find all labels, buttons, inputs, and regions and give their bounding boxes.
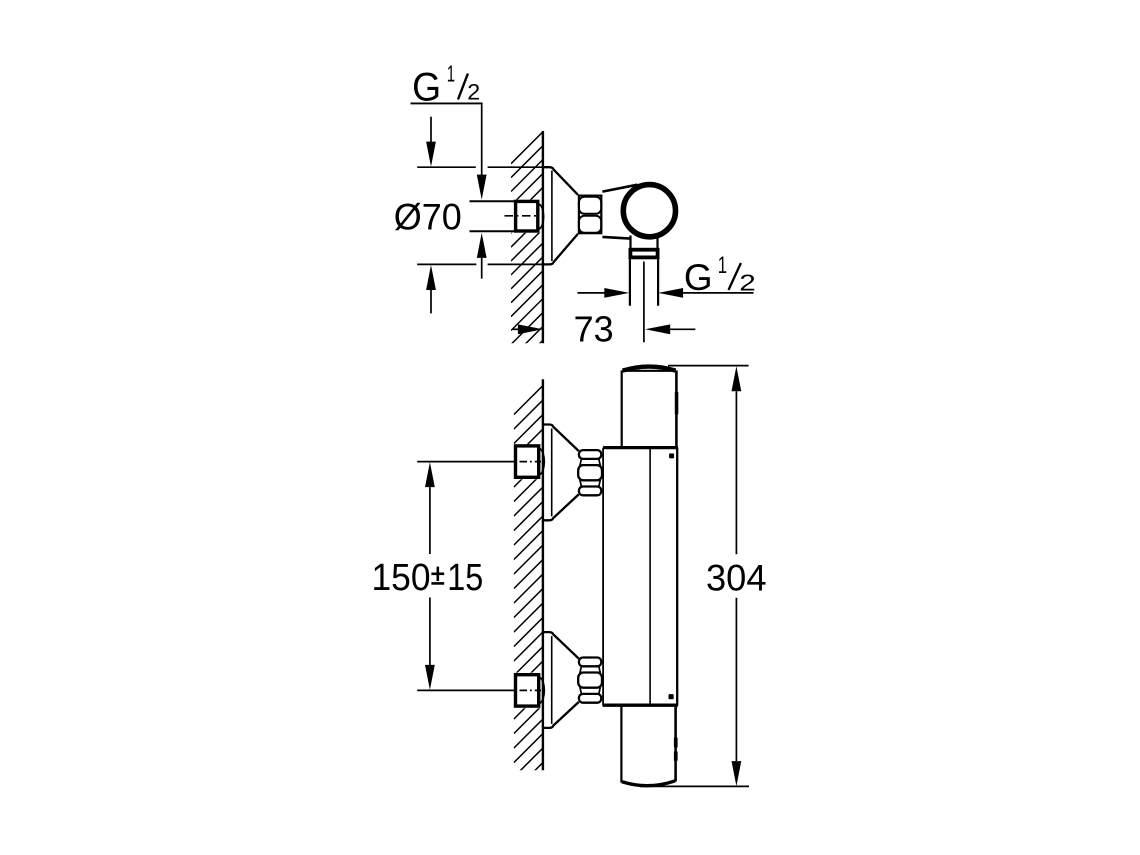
rounded end of nipple <box>539 204 544 229</box>
clip mark upper cylinder <box>675 392 679 414</box>
svg-text:1: 1 <box>447 61 455 87</box>
upper cylinder (cap) <box>621 370 623 447</box>
union nut (top figure) <box>579 196 601 234</box>
union nut lower (bottom figure) <box>578 658 602 703</box>
svg-text:Ø70: Ø70 <box>394 196 462 238</box>
dimension 73 <box>512 328 518 330</box>
wall surface line (bottom figure) <box>542 379 544 770</box>
wall hatching (top figure) <box>511 132 543 400</box>
centre line of supply connection <box>505 215 537 217</box>
union nut upper (bottom figure) <box>578 450 602 495</box>
clip marks lower cylinder <box>674 738 678 748</box>
thermostat body (bottom figure) <box>602 448 604 706</box>
svg-text:73: 73 <box>574 309 614 350</box>
temperature handle (circle) <box>623 185 675 237</box>
concealed connection square upper (bottom figure) <box>516 446 539 477</box>
hose collar <box>630 250 657 258</box>
dimension Ø70 arrows <box>430 117 432 143</box>
escutcheon flange (top figure) <box>543 167 578 195</box>
supply pipe through wall <box>470 200 515 202</box>
svg-text:150: 150 <box>372 557 431 599</box>
label G 1/2 (hose thread, bottom of top figure) <box>577 292 605 294</box>
hose connection pipe <box>629 259 631 306</box>
leader line under G 1/2 label <box>411 102 483 104</box>
svg-text:1: 1 <box>718 252 727 279</box>
fixing screw lower <box>669 694 674 699</box>
lower cylinder <box>620 705 622 782</box>
svg-text:2: 2 <box>467 79 480 104</box>
centre line upper connection <box>417 461 514 463</box>
fixing screw upper <box>669 453 674 458</box>
wall surface line (top figure) <box>542 131 544 343</box>
concealed connection square (top figure) <box>516 201 538 231</box>
concealed connection square lower (bottom figure) <box>516 675 539 706</box>
dimension 150±15 <box>425 462 435 487</box>
escutcheon flange upper (bottom figure) <box>543 425 579 452</box>
hose outlet neck <box>629 236 631 249</box>
dimension 304 <box>668 365 749 367</box>
valve housing outline (top figure) <box>602 185 637 192</box>
svg-text:304: 304 <box>706 558 767 599</box>
svg-text:2: 2 <box>739 270 756 296</box>
svg-text:15: 15 <box>447 557 483 599</box>
centre line lower connection <box>417 689 514 691</box>
arrow down to supply pipe top <box>477 175 487 200</box>
hose centre line <box>643 262 645 343</box>
extension lines of Ø70 (flange top/bottom edges) <box>417 167 543 264</box>
wall hatching (bottom figure) <box>514 386 543 821</box>
escutcheon flange lower (bottom figure) <box>543 632 579 659</box>
svg-text:G: G <box>684 257 713 298</box>
arrow up to supply pipe bottom <box>477 233 487 258</box>
